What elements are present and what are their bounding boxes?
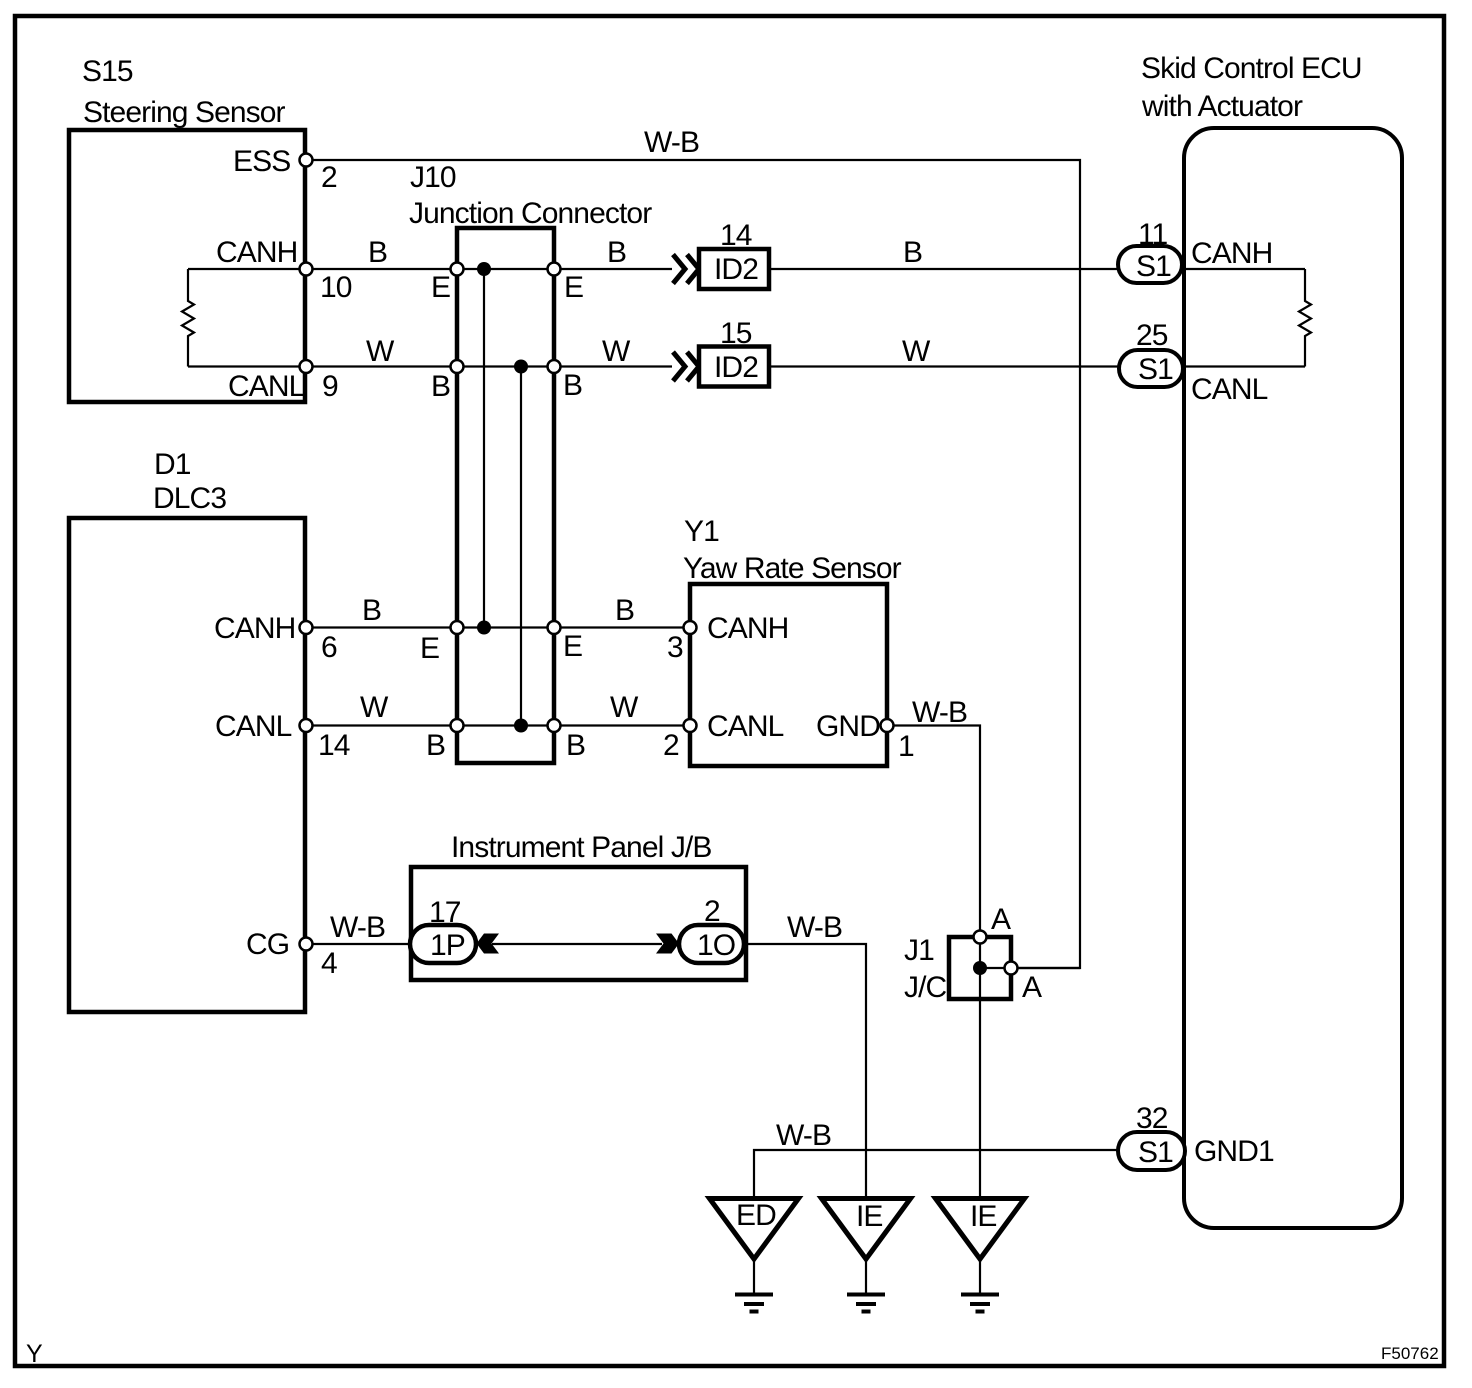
wire W-B: 1O to IE ground (744, 944, 866, 1198)
wire ESS W-B: S15 pin 2 to vertical, down to J1 right pin (306, 160, 1080, 968)
ground triangle IE (J1) (936, 1199, 1025, 1260)
svg-text:Steering Sensor: Steering Sensor (83, 96, 286, 129)
svg-text:W: W (902, 335, 931, 368)
svg-text:17: 17 (429, 896, 461, 929)
ground triangle IE (instrument panel) (822, 1199, 911, 1260)
box S15 Steering Sensor (69, 130, 305, 402)
ground stem IE (865, 1259, 867, 1294)
svg-text:32: 32 (1136, 1102, 1168, 1135)
svg-text:with Actuator: with Actuator (1141, 90, 1303, 123)
svg-text:W-B: W-B (330, 911, 385, 944)
svg-text:J/C: J/C (904, 971, 947, 1004)
svg-text:B: B (563, 369, 582, 402)
arrow into 1P (477, 934, 500, 954)
svg-text:2: 2 (321, 161, 337, 194)
wire CANH bottom row: J10 to Y1 pin3 (554, 626, 690, 628)
pin CANL (DLC3 pin 14) (300, 719, 313, 732)
svg-text:J10: J10 (410, 161, 456, 194)
box Skid Control ECU with Actuator (1184, 128, 1402, 1228)
wire CANL bottom row: J10 to Y1 pin2 (554, 724, 690, 726)
ground stem ED (753, 1259, 755, 1294)
pin J10 left CANH (451, 263, 464, 276)
ground symbol IE (847, 1295, 885, 1312)
ground triangle ED (710, 1199, 799, 1260)
pin J10 right CANH bottom (548, 621, 561, 634)
pin J10 left CANH bottom (451, 621, 464, 634)
wire CANH inside ECU to terminating resistor (1184, 268, 1305, 270)
wire J10 internal bus E (vertical) (483, 269, 485, 628)
component ID2 (15) (699, 347, 769, 387)
wire between arrows inside Instrument Panel J/B (492, 943, 662, 945)
wire CANH top row: S15 pin10 to J10 (306, 268, 457, 270)
wire CANH top row inside J10 (457, 268, 554, 270)
wire CANL bottom row: DLC3 pin14 to J10 (306, 724, 457, 726)
pin CG (DLC3 pin 4) (300, 938, 313, 951)
svg-text:B: B (362, 594, 381, 627)
box J1 J/C (949, 937, 1011, 999)
svg-text:W: W (366, 335, 395, 368)
svg-text:S1: S1 (1136, 250, 1171, 283)
connector chevrons ID2 CANH (673, 255, 699, 284)
wire CANH top row: J10 to ID2 (554, 268, 672, 270)
svg-text:10: 10 (320, 271, 352, 304)
svg-text:9: 9 (322, 370, 338, 403)
pin CANL (S15 pin 9) (300, 360, 313, 373)
svg-text:D1: D1 (154, 448, 191, 481)
ground symbol ED (735, 1295, 773, 1312)
svg-text:E: E (564, 271, 583, 304)
svg-text:14: 14 (720, 219, 752, 252)
wire CANL bottom row inside J10 (457, 724, 554, 726)
svg-text:11: 11 (1138, 218, 1168, 251)
svg-text:25: 25 (1136, 319, 1168, 352)
svg-text:F50762: F50762 (1381, 1344, 1439, 1363)
svg-text:J1: J1 (904, 934, 934, 967)
wire CANL top row: ID2 to ECU S1 (769, 365, 1120, 367)
junction dot CANL/B bus (514, 360, 528, 374)
svg-text:ED: ED (736, 1199, 776, 1232)
wire J1 right pin to ESS W-B vertical (980, 967, 1080, 969)
svg-text:B: B (566, 729, 585, 762)
svg-text:B: B (431, 370, 450, 403)
resistor terminating (inside ECU) (1299, 269, 1311, 367)
svg-text:2: 2 (663, 729, 679, 762)
ground stem IE 2 (979, 1259, 981, 1294)
svg-text:CG: CG (246, 928, 289, 961)
svg-text:A: A (991, 903, 1011, 936)
connector oval 1P (Instrument Panel J/B) (410, 925, 476, 963)
svg-text:ID2: ID2 (714, 351, 758, 384)
pin J10 right CANL (548, 360, 561, 373)
svg-text:B: B (607, 236, 626, 269)
wire CANL row inside S15 to terminating resistor (188, 365, 306, 367)
svg-text:Y1: Y1 (684, 515, 719, 548)
svg-text:S1: S1 (1138, 353, 1173, 386)
pin ESS (S15 pin 2) (300, 154, 313, 167)
wire CANH bottom row inside J10 (457, 626, 554, 628)
svg-text:15: 15 (720, 317, 752, 350)
component ID2 (14) (699, 249, 769, 289)
svg-text:Skid Control ECU: Skid Control ECU (1141, 52, 1362, 85)
svg-text:2: 2 (704, 895, 720, 928)
pin GND (Y1 pin 1) (881, 719, 894, 732)
pin J10 left CANL (451, 360, 464, 373)
pin CANL (Y1 pin 2) (684, 719, 697, 732)
pin J1 right A (1005, 962, 1018, 975)
svg-text:B: B (426, 729, 445, 762)
svg-text:CANL: CANL (215, 710, 292, 743)
resistor terminating (inside S15) (182, 269, 194, 367)
svg-text:CANH: CANH (1191, 237, 1272, 270)
svg-text:W-B: W-B (787, 911, 842, 944)
connector chevrons ID2 CANL (673, 352, 699, 381)
svg-text:Y: Y (26, 1340, 43, 1368)
wire CANH row inside S15 to terminating resistor (188, 268, 306, 270)
junction dot CANH/E bus (477, 262, 491, 276)
svg-text:ESS: ESS (233, 145, 290, 178)
svg-text:W: W (610, 691, 639, 724)
svg-text:1O: 1O (697, 929, 735, 962)
box D1 DLC3 (69, 518, 305, 1012)
connector S1 pin 11 CANH (1118, 246, 1182, 283)
pin J1 top A (974, 931, 987, 944)
svg-text:CANH: CANH (216, 236, 297, 269)
wire J1 through to IE ground (vertical) (979, 937, 981, 1198)
svg-text:S15: S15 (82, 55, 133, 88)
svg-text:3: 3 (667, 631, 683, 664)
pin CANH (S15 pin 10) (300, 263, 313, 276)
svg-text:CANH: CANH (214, 612, 295, 645)
svg-text:W-B: W-B (776, 1119, 831, 1152)
svg-text:E: E (563, 630, 582, 663)
svg-text:S1: S1 (1138, 1136, 1173, 1169)
svg-text:W-B: W-B (912, 696, 967, 729)
arrow into 1O (656, 934, 679, 954)
wire W-B GND1: ED ground to ECU S1 pin32 (754, 1150, 1122, 1198)
svg-text:B: B (903, 236, 922, 269)
connector oval 1O (Instrument Panel J/B) (679, 925, 744, 963)
wire CANL top row inside J10 (457, 365, 554, 367)
svg-text:CANL: CANL (707, 710, 784, 743)
junction dot J1 (973, 961, 987, 975)
svg-text:DLC3: DLC3 (153, 482, 226, 515)
svg-text:Instrument Panel J/B: Instrument Panel J/B (451, 831, 711, 864)
svg-text:ID2: ID2 (714, 253, 758, 286)
wire GND W-B: Y1 pin1 to J1 top pin (887, 726, 980, 938)
svg-text:GND1: GND1 (1194, 1135, 1274, 1168)
svg-text:Yaw Rate Sensor: Yaw Rate Sensor (683, 552, 902, 585)
svg-text:Junction Connector: Junction Connector (409, 197, 652, 230)
pin J10 right CANH (548, 263, 561, 276)
box Y1 Yaw Rate Sensor (690, 584, 887, 766)
svg-text:IE: IE (970, 1200, 997, 1233)
svg-text:1P: 1P (430, 929, 465, 962)
svg-text:W: W (602, 335, 631, 368)
wire CANH bottom row: DLC3 pin6 to J10 (306, 626, 457, 628)
svg-text:CANL: CANL (228, 370, 305, 403)
svg-text:B: B (615, 594, 634, 627)
svg-text:4: 4 (321, 947, 337, 980)
svg-text:GND: GND (816, 710, 880, 743)
svg-text:E: E (431, 271, 450, 304)
wire CANL top row: J10 to ID2 (554, 365, 672, 367)
connector S1 pin 25 CANL (1119, 350, 1183, 387)
svg-text:6: 6 (321, 631, 337, 664)
box Instrument Panel J/B (411, 867, 746, 980)
svg-text:CANH: CANH (707, 612, 788, 645)
pin J10 right CANL bottom (548, 719, 561, 732)
junction dot B bus bottom (514, 719, 528, 733)
box J10 Junction Connector (457, 228, 554, 763)
pin CANH (Y1 pin 3) (684, 621, 697, 634)
wire CANL top row: S15 pin9 to J10 (306, 365, 457, 367)
svg-text:14: 14 (318, 729, 350, 762)
ground symbol IE 2 (961, 1295, 999, 1312)
wire J10 internal bus B (vertical) (520, 367, 522, 726)
connector S1 pin 32 GND1 (1118, 1132, 1185, 1170)
wire CANH top row: ID2 to ECU S1 (769, 268, 1120, 270)
pin J10 left CANL bottom (451, 719, 464, 732)
wire CANL inside ECU to terminating resistor (1184, 365, 1305, 367)
svg-text:W: W (360, 691, 389, 724)
svg-text:E: E (420, 632, 439, 665)
pin CANH (DLC3 pin 6) (300, 621, 313, 634)
svg-text:B: B (368, 236, 387, 269)
wire CG W-B: DLC3 pin4 to 1P (306, 943, 411, 945)
svg-text:IE: IE (856, 1200, 883, 1233)
svg-text:A: A (1022, 971, 1042, 1004)
svg-text:W-B: W-B (644, 126, 699, 159)
svg-text:CANL: CANL (1191, 373, 1268, 406)
junction dot E bus bottom (477, 621, 491, 635)
svg-text:1: 1 (898, 730, 914, 763)
